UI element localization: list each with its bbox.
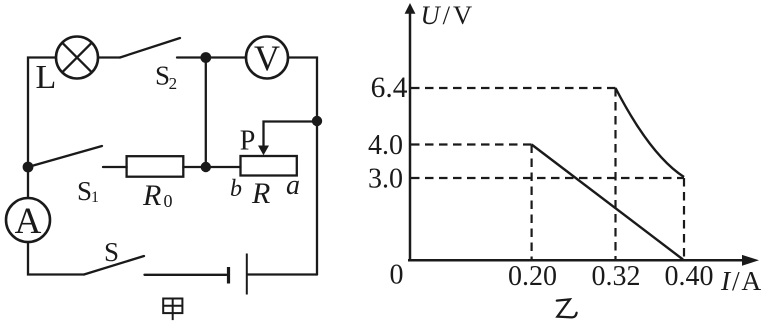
lamp L xyxy=(56,37,98,79)
graph Y axis arrowhead xyxy=(405,3,416,14)
wire battery to right vertical xyxy=(248,273,318,275)
dashed guide U=3.0 xyxy=(411,177,684,179)
svg-text:2: 2 xyxy=(169,74,178,93)
switch S2 blade xyxy=(120,38,180,58)
caption 甲 xyxy=(163,299,182,321)
switch S1 blade xyxy=(28,146,102,167)
wire top-left corner to lamp xyxy=(28,58,56,168)
dashed guide I=0.32 xyxy=(614,88,616,259)
rheostat R body xyxy=(241,156,297,176)
svg-text:R: R xyxy=(251,177,270,210)
node right (wiper tap) xyxy=(312,116,322,126)
graph Y axis xyxy=(409,10,412,260)
voltmeter V xyxy=(246,37,288,79)
node middle (branch joins resistor row) xyxy=(201,162,211,172)
wire S2 contact to node xyxy=(177,56,206,58)
svg-text:0.20: 0.20 xyxy=(508,261,557,292)
wire left vertical junction to ammeter xyxy=(27,167,29,198)
wire right vertical down to battery xyxy=(316,121,318,275)
svg-text:0.32: 0.32 xyxy=(592,261,641,292)
wire wiper from right node xyxy=(264,122,318,148)
wire middle vertical branch xyxy=(205,58,207,168)
wire S1 contact to R0 xyxy=(103,166,127,168)
wire node to voltmeter xyxy=(206,56,246,58)
battery positive plate xyxy=(246,254,248,295)
svg-text:P: P xyxy=(240,126,256,157)
graph curve (lamp characteristic) xyxy=(616,88,685,177)
svg-text:3.0: 3.0 xyxy=(368,164,403,195)
svg-text:0: 0 xyxy=(390,260,404,291)
wire ammeter to bottom-left corner xyxy=(28,242,84,275)
node left (S1 branch) xyxy=(23,162,34,173)
ammeter A xyxy=(6,198,50,242)
node top (S2 / voltmeter / middle branch) xyxy=(200,52,211,63)
svg-text:I/A: I/A xyxy=(720,265,763,296)
svg-text:A: A xyxy=(15,201,42,242)
wire voltmeter to top-right corner down xyxy=(288,58,317,122)
svg-text:U/V: U/V xyxy=(421,0,476,30)
svg-text:S: S xyxy=(104,237,119,267)
dashed guide I=0.20 xyxy=(530,145,532,260)
wire R0 to rheostat xyxy=(183,166,240,168)
caption 乙 xyxy=(557,299,577,317)
svg-text:1: 1 xyxy=(91,189,99,206)
svg-text:6.4: 6.4 xyxy=(371,72,408,104)
svg-text:L: L xyxy=(36,59,57,96)
svg-text:a: a xyxy=(286,170,300,201)
slider P arrow xyxy=(258,146,269,156)
battery negative plate xyxy=(227,267,230,284)
dashed guide U=4.0 xyxy=(411,143,532,145)
graph line (resistor characteristic) xyxy=(532,145,683,260)
dashed guide U=6.4 xyxy=(411,87,616,89)
svg-text:0: 0 xyxy=(164,191,173,211)
resistor R0 xyxy=(127,156,184,177)
wire S contact to battery xyxy=(145,274,227,276)
svg-text:S: S xyxy=(77,176,92,206)
svg-text:b: b xyxy=(230,176,242,202)
svg-text:R: R xyxy=(142,179,161,212)
dashed guide I=0.40 xyxy=(683,178,685,259)
wire lamp to switch S2 pivot xyxy=(98,56,120,58)
graph X axis arrowhead xyxy=(742,255,759,266)
svg-text:V: V xyxy=(254,38,280,78)
graph X axis xyxy=(408,259,744,262)
svg-text:0.40: 0.40 xyxy=(665,261,714,292)
switch S blade xyxy=(84,256,144,275)
svg-text:4.0: 4.0 xyxy=(368,130,403,161)
